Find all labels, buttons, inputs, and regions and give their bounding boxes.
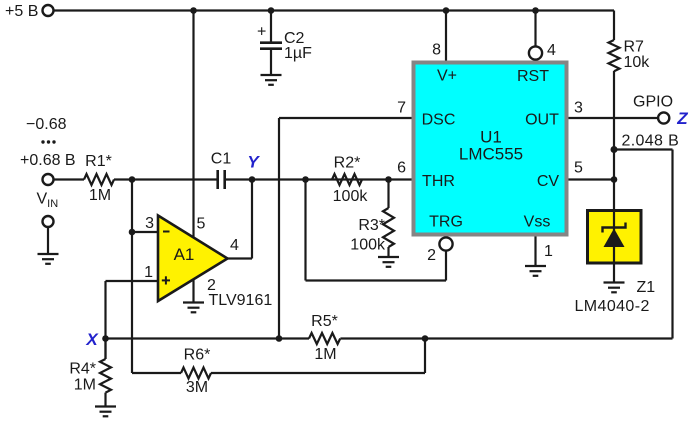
svg-text:RST: RST: [517, 68, 549, 85]
svg-text:THR: THR: [422, 173, 455, 190]
wire TRG riser to pin 2 terminal: [445, 251, 447, 281]
junction X row / DSC column: [276, 335, 283, 342]
wire R6 to riser: [211, 372, 425, 374]
wire op-amp pin 1: [106, 280, 159, 282]
svg-text:A1: A1: [174, 245, 195, 264]
capacitor C1: [218, 170, 225, 189]
ground op-amp pin 2: [183, 303, 204, 313]
junction +5 rail / U1 pin 8: [443, 7, 450, 14]
terminal RST pin4: [529, 46, 542, 59]
open terminals: [43, 5, 670, 251]
wire op-amp pin 3: [132, 231, 158, 233]
wire OUT row to GPIO: [569, 117, 659, 119]
node labels X Y Z: [85, 109, 688, 349]
svg-text:1µF: 1µF: [284, 45, 312, 62]
ground below Vss: [525, 266, 546, 276]
svg-text:V+: V+: [437, 68, 457, 85]
resistor R3: [383, 180, 394, 258]
junction +5 rail / U1 pin 4: [532, 7, 539, 14]
svg-text:2.048 B: 2.048 B: [622, 133, 680, 150]
svg-text:1M: 1M: [89, 187, 111, 204]
svg-text:VIN: VIN: [37, 191, 59, 211]
svg-text:R6*: R6*: [184, 347, 211, 364]
minus sign pin 3: [163, 231, 170, 233]
svg-text:R7: R7: [624, 39, 645, 56]
wire U1 pin 8 drop: [445, 11, 447, 61]
zener diode symbol: [603, 223, 626, 233]
resistor R7: [609, 11, 620, 211]
wire VIN to R1: [53, 178, 84, 180]
resistor R6: [181, 368, 211, 379]
wire R6 row: [132, 372, 181, 374]
svg-text:100k: 100k: [350, 237, 386, 254]
junction R1 / C1 / pin 3 column: [129, 176, 136, 183]
junction +5 rail / op-amp V+: [190, 7, 197, 14]
svg-text:TRG: TRG: [429, 214, 463, 231]
ground below R4: [95, 407, 116, 417]
ground below C2: [261, 75, 282, 85]
wire pin1 column down to X: [104, 281, 106, 359]
wire R6 riser to X row: [424, 339, 426, 374]
wire R5 to right edge: [340, 337, 672, 339]
terminal VIN: [43, 174, 54, 185]
wire 2.048 branch right: [614, 148, 673, 150]
wire op-amp output pin 4: [228, 257, 253, 259]
svg-text:CV: CV: [537, 173, 560, 190]
svg-text:100k: 100k: [333, 188, 369, 205]
svg-text:TLV9161: TLV9161: [209, 292, 273, 309]
junction 2.048 node: [611, 146, 618, 153]
zener diode triangle: [604, 229, 625, 248]
svg-text:DSC: DSC: [422, 112, 456, 129]
svg-text:4: 4: [547, 42, 556, 59]
svg-text:R2*: R2*: [334, 155, 361, 172]
node X junction: [102, 335, 109, 342]
wire VIN ground stub: [47, 227, 49, 254]
ground below R3: [378, 257, 399, 267]
svg-text:X: X: [85, 330, 99, 349]
svg-text:6: 6: [397, 160, 406, 177]
svg-text:4: 4: [230, 237, 239, 254]
svg-text:8: 8: [432, 42, 441, 59]
terminal GPIO: [658, 112, 669, 123]
op-amp A1: [158, 216, 228, 302]
wire op-amp pin 2 to ground: [192, 279, 194, 303]
junction CV / Z1 column: [611, 176, 618, 183]
svg-text:1: 1: [544, 243, 553, 260]
svg-text:LMC555: LMC555: [459, 145, 523, 164]
svg-text:+: +: [257, 24, 266, 41]
svg-text:R1*: R1*: [85, 153, 112, 170]
resistor R1: [84, 174, 114, 185]
ground below Z1: [604, 283, 625, 293]
terminal +5: [43, 5, 54, 16]
wire V+ column to op-amp pin 5: [192, 11, 194, 240]
wire CV row: [569, 178, 615, 180]
svg-text:+5 B: +5 B: [5, 3, 38, 20]
zener Z1 box: [588, 211, 642, 264]
svg-text:1M: 1M: [74, 377, 96, 394]
svg-text:GPIO: GPIO: [633, 94, 673, 111]
svg-text:3M: 3M: [186, 379, 208, 396]
svg-text:3: 3: [574, 100, 583, 117]
junction THR row / R3: [385, 176, 392, 183]
svg-text:R5*: R5*: [311, 313, 338, 330]
junction THR row / TRG tap: [302, 176, 309, 183]
svg-text:Z: Z: [676, 109, 688, 128]
svg-text:7: 7: [397, 100, 406, 117]
node Y junction: [249, 176, 256, 183]
wire X row: [106, 337, 310, 339]
svg-text:R4*: R4*: [69, 361, 96, 378]
svg-text:5: 5: [574, 160, 583, 177]
labels: [5, 3, 312, 133]
wire through Z1: [613, 210, 615, 283]
junction op-amp pin 3: [129, 229, 136, 236]
svg-text:R3*: R3*: [358, 217, 385, 234]
wire TRG tap column: [304, 180, 306, 281]
svg-text:10k: 10k: [624, 54, 651, 71]
resistor R5: [309, 333, 340, 344]
svg-text:Y: Y: [247, 153, 260, 172]
svg-text:−0.68: −0.68: [26, 116, 67, 133]
svg-text:Vss: Vss: [524, 214, 551, 231]
svg-text:3: 3: [145, 215, 154, 232]
wire output riser to node Y: [251, 180, 253, 259]
svg-text:+0.68 B: +0.68 B: [20, 152, 76, 169]
terminal TRG pin2: [439, 237, 452, 250]
wire TRG bottom run: [306, 279, 447, 281]
junction X row / R6 riser: [422, 335, 429, 342]
capacitor C2: [260, 11, 282, 76]
junction +5 rail / C2: [268, 7, 275, 14]
wire DSC column down to node X row: [278, 118, 280, 339]
IC U1 box: [414, 63, 567, 235]
wire DSC row: [279, 117, 413, 119]
wire R1 to C1: [114, 178, 217, 180]
svg-text:2: 2: [427, 247, 436, 264]
wire top +5V rail: [54, 9, 615, 11]
resistor R2: [332, 174, 362, 185]
svg-text:C1: C1: [211, 151, 232, 168]
wire right edge down: [671, 150, 673, 339]
svg-text:1M: 1M: [314, 346, 336, 363]
wire node column R1/pin3/R6: [131, 180, 133, 374]
svg-text:5: 5: [197, 216, 206, 233]
ground below VIN: [38, 254, 59, 264]
svg-text:OUT: OUT: [525, 112, 559, 129]
plus sign pin 1: [162, 279, 170, 281]
wire Vss pin 1: [534, 236, 536, 266]
svg-text:Z1: Z1: [637, 279, 656, 296]
wire C1 to THR: [226, 178, 413, 180]
svg-text:1: 1: [144, 264, 153, 281]
svg-text:LM4040-2: LM4040-2: [575, 298, 650, 315]
wire U1 pin 4 RST drop: [534, 11, 536, 47]
terminal VIN ground: [43, 216, 54, 227]
resistor R4: [100, 339, 111, 407]
